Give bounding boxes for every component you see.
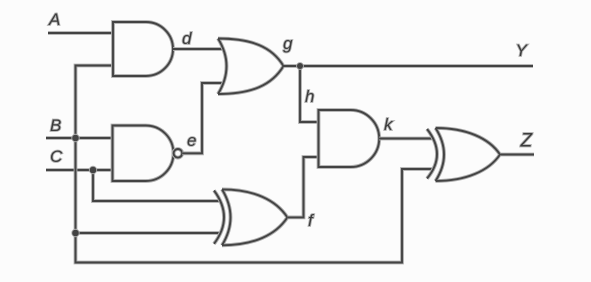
wire e to OR1 lower input [182, 83, 223, 153]
input label B [50, 116, 61, 135]
svg-text:Y: Y [516, 41, 529, 60]
node C junction dot [89, 166, 97, 174]
svg-text:B: B [50, 116, 61, 135]
svg-text:f: f [308, 211, 315, 230]
wire B branch to AND1 and along bottom to XOR2 [76, 66, 433, 263]
AND gate 1 [113, 22, 173, 76]
wire B to NAND [46, 136, 113, 140]
svg-text:C: C [50, 147, 63, 166]
wire k to XOR2 upper input [379, 137, 433, 141]
wire g to Y output [284, 64, 534, 68]
svg-text:A: A [48, 10, 60, 29]
NAND gate [113, 126, 174, 182]
XOR gate 1 input curve [214, 191, 224, 244]
wire h from node g to AND2 upper input [300, 66, 319, 122]
node B junction dot [71, 134, 79, 142]
output label Y [516, 41, 529, 60]
node label f [308, 211, 315, 230]
NAND bubble [174, 149, 183, 158]
svg-text:h: h [305, 87, 314, 106]
wire C to NAND [46, 168, 113, 172]
XOR gate 1 body [222, 189, 287, 245]
input label A [48, 10, 60, 29]
AND gate 2 [319, 110, 380, 167]
wire C branch to XOR1 upper input [93, 170, 220, 201]
node g junction dot [296, 62, 304, 70]
svg-text:e: e [187, 131, 196, 150]
XOR gate 2 body [436, 128, 501, 181]
wire A to AND1 [48, 31, 113, 35]
node label e [187, 131, 196, 150]
svg-text:k: k [384, 115, 394, 134]
wire bottom branch to XOR1 lower input [76, 231, 220, 235]
XOR gate 2 input curve [427, 129, 437, 179]
wire Z output [500, 153, 534, 157]
svg-text:Z: Z [520, 131, 534, 152]
input label C [50, 147, 63, 166]
node label k [384, 115, 394, 134]
node label g [283, 34, 293, 53]
node label d [182, 29, 192, 48]
svg-text:d: d [182, 29, 192, 48]
svg-text:g: g [283, 34, 293, 53]
output label Z [520, 131, 534, 152]
wire d [173, 47, 223, 51]
wire f to AND2 lower input [287, 157, 318, 217]
node label h [305, 87, 314, 106]
OR gate 1 [218, 39, 284, 95]
node bottom junction dot [71, 229, 79, 237]
